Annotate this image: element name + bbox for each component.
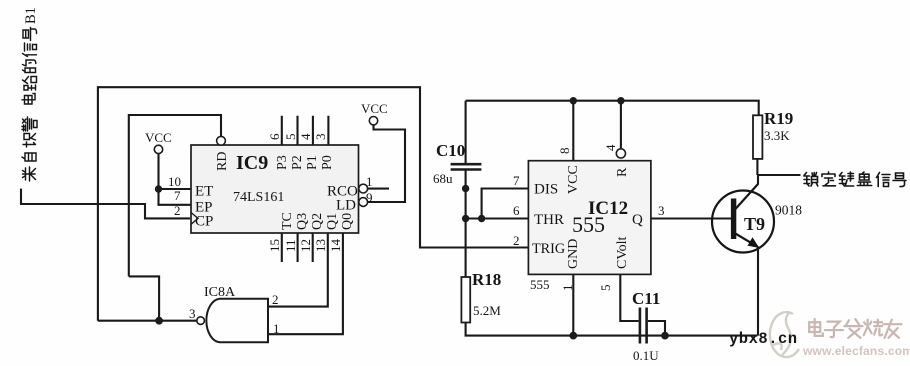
label output keyboard-lock signal	[804, 172, 906, 187]
svg-text:R: R	[615, 167, 630, 177]
wire Q0 to NAND pin1	[268, 233, 343, 334]
node THR junction A	[462, 215, 469, 222]
svg-text:7: 7	[513, 173, 520, 188]
svg-text:C10: C10	[436, 141, 465, 160]
node VCC rail pin4	[617, 97, 624, 104]
svg-text:6: 6	[513, 203, 520, 218]
VCC symbol left	[145, 130, 172, 154]
svg-text:Q0: Q0	[340, 213, 355, 230]
svg-text:Q1: Q1	[325, 213, 340, 230]
svg-text:ET: ET	[195, 184, 213, 200]
svg-text:P1: P1	[305, 155, 320, 170]
pin 3 bubble IC8A	[197, 317, 205, 325]
svg-text:2: 2	[174, 203, 181, 218]
svg-text:1: 1	[366, 174, 373, 189]
wire output to keyboard-lock	[757, 174, 800, 176]
svg-text:GND: GND	[566, 239, 581, 269]
svg-text:15: 15	[267, 239, 282, 252]
pin 4 bubble R	[616, 149, 625, 158]
wire NAND output net: left rail up, across top, down to TRIG	[98, 87, 529, 321]
svg-text:8: 8	[557, 148, 572, 155]
wire GND pin1	[572, 274, 574, 335]
wire bottom ground rail	[466, 323, 758, 336]
svg-text:P2: P2	[290, 155, 305, 170]
wire R19 to output junction	[756, 159, 758, 175]
wire 555 pin4	[620, 101, 622, 149]
svg-text:4: 4	[603, 144, 618, 151]
svg-text:3.3K: 3.3K	[764, 128, 790, 143]
watermark elecfans logo text	[809, 319, 901, 338]
pin RD bubble	[217, 136, 226, 145]
svg-text:CP: CP	[195, 214, 213, 230]
svg-text:5: 5	[283, 134, 298, 141]
svg-text:3: 3	[313, 134, 328, 141]
svg-text:555: 555	[530, 277, 550, 292]
svg-text:P3: P3	[275, 155, 290, 170]
svg-text:B1: B1	[23, 7, 39, 24]
svg-text:LD: LD	[336, 198, 356, 214]
svg-text:THR: THR	[534, 212, 564, 228]
svg-text:74LS161: 74LS161	[233, 190, 284, 205]
node ground rail pin1	[569, 332, 577, 340]
svg-text:3: 3	[658, 203, 665, 218]
pin LD bubble	[359, 198, 368, 207]
wire CVolt pin5 to C11	[620, 274, 638, 321]
wire C10 branch vertical	[465, 101, 467, 277]
pin RCO bubble	[359, 184, 368, 193]
svg-text:RD: RD	[215, 152, 230, 171]
label input signal (vertical)	[22, 7, 39, 181]
wire IC9 bottom stubs TC Q3 Q2	[282, 233, 313, 262]
wire LD to VCC	[368, 125, 405, 202]
svg-text:11: 11	[283, 239, 298, 252]
wire Q to base	[651, 217, 732, 219]
svg-text:www.elecfans.com: www.elecfans.com	[802, 344, 910, 358]
svg-text:5.2M: 5.2M	[473, 303, 501, 318]
svg-text:3: 3	[189, 306, 196, 321]
wire Q1 to NAND pin2	[268, 233, 328, 307]
IC8A NAND gate	[204, 285, 268, 342]
svg-text:CVolt: CVolt	[615, 236, 630, 269]
wire collector up	[757, 175, 759, 185]
capacitor C10	[433, 141, 481, 186]
svg-text:12: 12	[298, 239, 313, 252]
watermark logo swoosh	[770, 312, 799, 357]
svg-text:Q: Q	[632, 212, 643, 228]
svg-text:IC9: IC9	[236, 152, 268, 174]
svg-text:13: 13	[313, 239, 328, 252]
svg-text:VCC: VCC	[361, 101, 388, 116]
svg-text:P0: P0	[320, 155, 335, 170]
resistor R18	[461, 270, 501, 323]
svg-text:68u: 68u	[433, 171, 453, 186]
svg-text:2: 2	[513, 233, 520, 248]
node ground rail C11	[661, 332, 669, 340]
node DIS/THR junction B	[478, 215, 485, 222]
svg-text:DIS: DIS	[534, 182, 558, 198]
svg-text:VCC: VCC	[145, 130, 172, 145]
node VCC rail pin8	[570, 97, 577, 104]
IC9 74LS161	[191, 145, 359, 233]
capacitor C11	[632, 289, 660, 363]
svg-text:1: 1	[273, 321, 280, 336]
svg-text:4: 4	[298, 133, 313, 140]
svg-text:10: 10	[168, 174, 181, 189]
wire top rail of 555	[466, 101, 759, 116]
svg-text:6: 6	[267, 133, 282, 140]
svg-text:T9: T9	[744, 214, 765, 234]
IC12 555 timer	[528, 161, 651, 275]
svg-text:R19: R19	[764, 109, 793, 128]
wire emitter down	[757, 247, 759, 336]
IC9 pin numbers	[168, 133, 373, 252]
svg-text:TC: TC	[280, 212, 295, 230]
wire VCC to ET/EP	[159, 154, 192, 205]
wire NAND output horizontal	[98, 320, 197, 322]
node ET/EP VCC junction	[155, 185, 162, 192]
svg-text:2: 2	[272, 292, 279, 307]
svg-text:Q3: Q3	[295, 213, 310, 230]
svg-text:R18: R18	[472, 270, 501, 289]
svg-text:7: 7	[174, 188, 181, 203]
svg-text:1: 1	[560, 285, 575, 292]
transistor T9	[712, 184, 802, 253]
clock triangle CP	[191, 213, 198, 225]
IC12 pin numbers	[513, 144, 665, 291]
svg-text:14: 14	[328, 239, 343, 253]
svg-text:TRIG: TRIG	[532, 241, 565, 257]
svg-text:ybx8.cn: ybx8.cn	[729, 330, 798, 348]
svg-text:IC8A: IC8A	[204, 285, 236, 300]
wire input B1 to CP	[21, 189, 190, 219]
wire 555 pin8	[572, 101, 574, 161]
wire IC9 top stubs P3 P2 P1 P0	[282, 116, 329, 145]
wire DIS	[482, 189, 529, 219]
resistor R19	[753, 109, 793, 159]
svg-text:9018: 9018	[775, 203, 802, 218]
svg-text:0.1U: 0.1U	[633, 348, 659, 363]
svg-text:Q2: Q2	[310, 213, 325, 230]
svg-text:C11: C11	[632, 289, 660, 308]
node C10/DIS junction	[462, 185, 469, 192]
svg-text:9: 9	[366, 190, 373, 205]
svg-text:555: 555	[572, 212, 605, 237]
svg-text:5: 5	[598, 285, 613, 292]
svg-text:VCC: VCC	[566, 165, 581, 194]
VCC symbol right	[361, 101, 388, 125]
node NAND output junction	[155, 317, 163, 325]
wire NAND output to RD	[129, 115, 221, 276]
wire THR	[466, 217, 529, 219]
wire RCO stub	[368, 188, 389, 190]
wire C11 to ground rail	[648, 321, 665, 336]
wire jog to output junction	[129, 276, 159, 320]
